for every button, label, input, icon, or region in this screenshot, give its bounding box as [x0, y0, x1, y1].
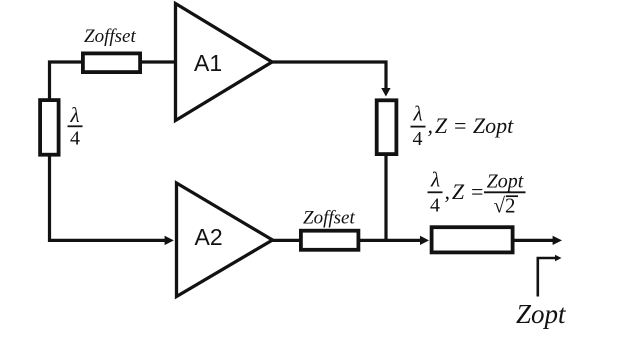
label lambda/4 (left resistor)	[68, 103, 83, 150]
svg-text:Zoffset: Zoffset	[303, 208, 355, 229]
op-amp A2	[177, 183, 273, 297]
resistor: quarter-wave line Z=Zopt (vertical, right)	[377, 100, 397, 154]
resistor: Zoffset (top branch)	[83, 53, 140, 72]
svg-text:Zoffset: Zoffset	[84, 26, 136, 47]
svg-text:Zopt: Zopt	[487, 171, 524, 193]
svg-text:4: 4	[430, 195, 440, 217]
wire: top-left corner from Zoffset resistor to input quarter-wave line	[50, 62, 84, 100]
resistor: output quarter-wave transformer Z=Zopt/sqrt2	[432, 227, 513, 252]
wire: Zoffset resistor to A1 input	[141, 60, 177, 63]
wire: output transformer to load arrow	[513, 239, 553, 242]
port arrow: bent arrow to Zopt load	[538, 258, 556, 297]
svg-text:, Z =: , Z =	[445, 179, 485, 204]
svg-text:A1: A1	[194, 50, 222, 76]
arrowhead: output to load	[553, 236, 562, 245]
resistor: Zoffset (bottom branch)	[301, 231, 359, 250]
wire: vertical quarter-wave resistor down to summing rail	[384, 156, 387, 243]
svg-text:4: 4	[70, 128, 80, 150]
arrowhead: into vertical quarter-wave resistor	[381, 88, 390, 97]
svg-text:, Z = Zopt: , Z = Zopt	[428, 113, 515, 138]
arrowhead: port arrow	[555, 255, 562, 262]
svg-text:λ: λ	[430, 168, 440, 192]
svg-text:λ: λ	[412, 102, 422, 126]
svg-text:λ: λ	[69, 103, 79, 127]
resistor: input quarter-wave line (lambda/4), vertical, left	[40, 100, 59, 155]
arrowhead: into output transformer	[420, 236, 429, 245]
svg-text:A2: A2	[195, 224, 223, 250]
svg-text:Zopt: Zopt	[516, 299, 567, 329]
svg-text:4: 4	[413, 128, 423, 150]
svg-text:√2: √2	[494, 194, 516, 218]
wire: left vertical down to A2 input with corner	[50, 156, 166, 241]
arrowhead: into A2 input	[165, 236, 174, 245]
op-amp A1	[176, 4, 273, 121]
wire: Zoffset bottom to junction and toward output transformer	[359, 239, 421, 242]
label lambda/4, Z = Zopt/sqrt(2)	[428, 168, 526, 218]
wire: A2 output to Zoffset resistor	[272, 239, 301, 242]
label lambda/4, Z = Zopt	[411, 102, 515, 151]
wire: A1 output to top-right corner and down	[271, 62, 386, 89]
